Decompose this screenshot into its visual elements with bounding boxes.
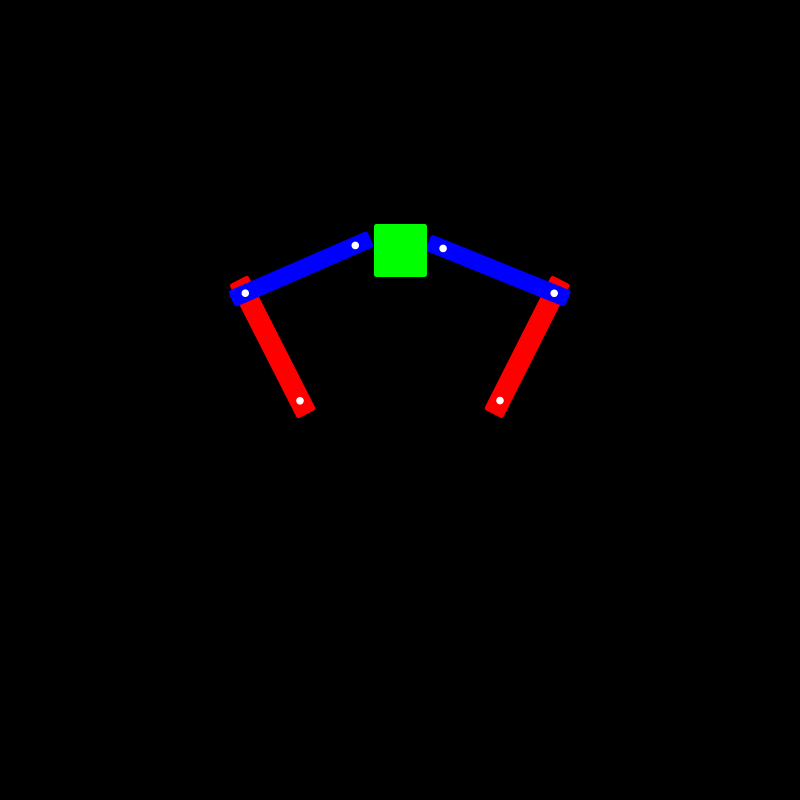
right shin link (red) [484, 275, 570, 419]
left foot joint [296, 397, 304, 405]
right hip joint [439, 245, 447, 253]
right foot joint [496, 397, 504, 405]
torso body (green square) [374, 224, 427, 277]
right thigh link (blue) [425, 234, 571, 307]
left shin link (red) [229, 275, 316, 419]
right knee joint [550, 290, 558, 298]
left knee joint [242, 289, 250, 297]
left hip joint [352, 242, 360, 250]
left thigh link (blue) [228, 231, 374, 307]
